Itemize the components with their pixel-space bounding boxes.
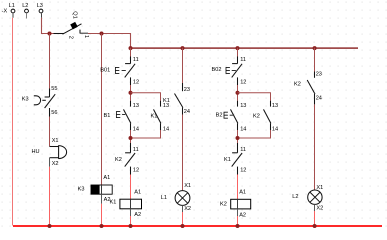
svg-text:13: 13	[133, 103, 139, 109]
svg-text:K2: K2	[115, 157, 122, 163]
wire B1 to K2 interlock	[130, 130, 132, 143]
svg-text:23: 23	[316, 72, 322, 78]
svg-text:X1: X1	[52, 138, 59, 144]
node bus junction K2 coil	[236, 224, 240, 228]
wire L3 down to switch level	[42, 18, 54, 34]
svg-text:12: 12	[133, 168, 139, 174]
contact NO K2 13-14 parallel	[253, 101, 278, 133]
wire horn branch middle	[49, 117, 51, 147]
svg-text:14: 14	[163, 126, 169, 132]
pushbutton NC B02 11-12	[212, 57, 247, 86]
node bus junction at K2 lamp branch	[313, 46, 317, 50]
contact NO K1 13-14 parallel	[151, 101, 170, 133]
svg-text:55: 55	[51, 86, 57, 92]
wire K1 interlock to K2 coil	[237, 175, 239, 200]
svg-text:14: 14	[240, 126, 246, 132]
terminal L2	[22, 3, 28, 19]
svg-text:Q1: Q1	[72, 11, 78, 18]
node bus junction lamp L2	[313, 224, 317, 228]
horn HU	[32, 138, 67, 167]
svg-text:12: 12	[240, 168, 246, 174]
svg-text:A1: A1	[239, 190, 246, 196]
wire lamp L2 to bottom bus	[314, 204, 316, 211]
node bus junction at K1 lamp branch	[181, 46, 185, 50]
node junction merge right	[236, 136, 240, 140]
terminal L1	[9, 3, 15, 18]
svg-text:1: 1	[83, 35, 89, 38]
wire switch to top bus corner	[88, 34, 131, 48]
svg-text:K1: K1	[163, 98, 170, 104]
wire parallel loop bottom right	[238, 130, 271, 138]
wire horn branch upper	[49, 34, 51, 89]
svg-text:K2: K2	[220, 202, 227, 208]
contact NC K2 11-12 interlock	[115, 143, 139, 175]
node bus junction timer coil	[100, 224, 104, 228]
wire parallel loop top left	[131, 93, 161, 101]
node bus junction lamp L1	[181, 224, 185, 228]
svg-text:11: 11	[240, 57, 246, 63]
svg-text:A2: A2	[239, 213, 246, 219]
svg-text:L1: L1	[9, 3, 15, 9]
wire K2 23-24 to lamp L2	[314, 104, 316, 190]
svg-text:14: 14	[272, 126, 278, 132]
wire bus drop to K1 23-24	[182, 48, 184, 83]
wire K1 23-24 to lamp L1	[182, 115, 184, 191]
lamp L2	[292, 185, 323, 212]
node bus junction K1 coil	[129, 224, 133, 228]
wire timer coil to bottom bus	[101, 194, 103, 204]
wire parallel loop bottom left	[131, 130, 161, 138]
svg-text:L2: L2	[292, 194, 298, 200]
svg-text:K3: K3	[78, 187, 85, 193]
svg-text:12: 12	[240, 79, 246, 85]
wire bus drop to K2 23-24	[314, 48, 316, 72]
svg-text:11: 11	[133, 57, 139, 63]
wire timer coil branch	[101, 34, 103, 186]
top bus wire	[131, 47, 359, 49]
svg-text:K2: K2	[253, 114, 260, 120]
svg-text:24: 24	[184, 109, 190, 115]
svg-text:A1: A1	[103, 175, 110, 181]
bottom bus wire	[13, 225, 382, 227]
node junction timer branch tap	[100, 32, 104, 36]
svg-text:K3: K3	[22, 96, 29, 102]
svg-text:B2: B2	[216, 112, 223, 118]
node junction parallel tap left	[129, 91, 133, 95]
wire K2 interlock to K1 coil	[130, 175, 132, 200]
wire K2 coil to bottom bus	[237, 209, 239, 216]
svg-text:X1: X1	[184, 183, 191, 189]
svg-text:13: 13	[272, 103, 278, 109]
svg-text:B1: B1	[104, 113, 111, 119]
wire parallel loop top right	[238, 93, 271, 101]
timed NC contact K3 55-56	[22, 86, 58, 117]
wire L1 rail down to bottom bus	[12, 18, 14, 226]
svg-text:HU: HU	[32, 149, 40, 155]
node bus junction at B01 column	[129, 46, 133, 50]
svg-text:X2: X2	[184, 206, 191, 212]
svg-text:B01: B01	[100, 67, 110, 73]
svg-text:13: 13	[240, 103, 246, 109]
node junction parallel tap right	[236, 91, 240, 95]
svg-text:K1: K1	[224, 157, 231, 163]
svg-text:A1: A1	[134, 190, 141, 196]
svg-text:-X: -X	[2, 8, 8, 14]
wire B02 to B2 with tap	[237, 85, 239, 101]
svg-text:L3: L3	[37, 3, 43, 9]
wire B01 to B1 with tap	[130, 85, 132, 101]
svg-text:24: 24	[316, 96, 322, 102]
node junction merge left	[129, 136, 133, 140]
wire horn branch lower	[49, 158, 51, 167]
svg-text:K2: K2	[294, 82, 301, 88]
wire K1 coil to bottom bus	[130, 209, 132, 216]
contact NO K2 23-24	[294, 72, 322, 105]
coil K2 A1-A2	[220, 190, 251, 219]
timer coil K3	[78, 175, 113, 203]
wire B2 to K1 interlock	[237, 130, 239, 143]
wire lamp L1 to bottom bus	[182, 205, 184, 212]
svg-text:K1: K1	[151, 114, 158, 120]
svg-text:L1: L1	[161, 195, 167, 201]
coil K1 A1-A2	[110, 190, 142, 219]
svg-text:11: 11	[240, 147, 246, 153]
wire bus drop to B02	[237, 48, 239, 57]
svg-text:14: 14	[133, 126, 139, 132]
svg-text:56: 56	[51, 110, 57, 116]
wire bus drop to B01	[130, 48, 132, 57]
node bus junction horn	[48, 224, 52, 228]
svg-text:A2: A2	[134, 212, 141, 218]
svg-text:2: 2	[67, 36, 73, 39]
node junction at horn branch tap	[48, 32, 52, 36]
terminal L3	[37, 3, 43, 18]
contact NC K1 11-12 interlock	[224, 143, 246, 175]
svg-text:X2: X2	[316, 206, 323, 212]
pushbutton NC B01 11-12	[100, 57, 139, 86]
node bus junction at B02 column	[236, 46, 240, 50]
svg-text:11: 11	[133, 147, 139, 153]
svg-text:12: 12	[133, 79, 139, 85]
switch Q1	[54, 11, 89, 39]
svg-text:B02: B02	[212, 67, 222, 73]
svg-text:23: 23	[184, 87, 190, 93]
svg-text:K1: K1	[110, 200, 117, 206]
svg-text:L2: L2	[22, 3, 28, 9]
lamp L1	[161, 183, 191, 212]
svg-text:X2: X2	[52, 161, 59, 167]
pushbutton NO B1 13-14	[104, 101, 140, 133]
pushbutton NO B2 13-14	[216, 101, 247, 133]
contact NO K1 23-24	[163, 83, 190, 115]
